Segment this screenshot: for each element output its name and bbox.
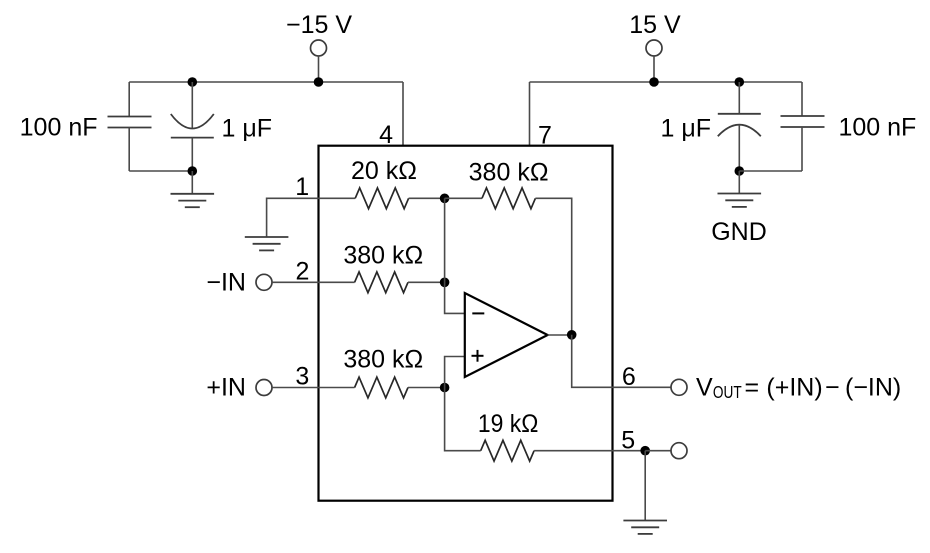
wire -15V rail <box>129 81 403 83</box>
wire pin 2 <box>272 281 354 283</box>
wire node C to non-inverting input <box>445 357 465 388</box>
svg-text:6: 6 <box>622 363 636 391</box>
capacitor 100 nF (right) <box>781 82 825 171</box>
resistor 380 kOhm (feedback) <box>482 188 535 209</box>
svg-text:380 kΩ: 380 kΩ <box>343 345 423 373</box>
junction dot node A <box>440 194 450 204</box>
terminal circle pin 6 <box>671 379 687 395</box>
junction dot node C <box>440 383 450 393</box>
junction dot rail/1uF <box>188 77 198 87</box>
ground (pin 1) <box>245 237 289 250</box>
wire node C down to 19k <box>445 388 481 451</box>
svg-text:15 V: 15 V <box>629 11 681 39</box>
wire 20k to node A <box>409 197 445 199</box>
junction dot rail/stem (right) <box>649 77 659 87</box>
svg-text:380 kΩ: 380 kΩ <box>343 242 423 270</box>
svg-text:100 nF: 100 nF <box>20 114 98 142</box>
svg-text:−IN: −IN <box>206 269 246 297</box>
svg-text:380 kΩ: 380 kΩ <box>469 159 549 187</box>
svg-text:GND: GND <box>711 218 767 246</box>
op-amp minus sign <box>472 312 484 314</box>
wire stem from -15V terminal <box>318 56 320 82</box>
svg-text:−: − <box>825 374 840 402</box>
resistor 380 kOhm (pin 3) <box>355 377 408 398</box>
wire 19k to pin 5 node <box>534 450 645 452</box>
junction dot pin 5 <box>640 446 650 456</box>
wire pin 1 <box>267 198 356 237</box>
terminal circle pin 3 <box>256 380 272 396</box>
wire pin 3 <box>272 387 354 389</box>
junction dot caps/ground (left) <box>188 166 198 176</box>
svg-text:=: = <box>745 374 760 402</box>
wire ground stem (left) <box>191 171 193 194</box>
junction dot rail/stem <box>314 77 324 87</box>
capacitor 1 uF polarized (right) <box>718 82 761 171</box>
wire pin7 drop <box>529 82 531 146</box>
wire 380k to node C <box>408 387 445 389</box>
wire output node to pin 6 terminal <box>572 335 671 388</box>
svg-text:3: 3 <box>295 363 309 391</box>
svg-text:−15 V: −15 V <box>286 11 352 39</box>
svg-text:(−IN): (−IN) <box>845 374 901 402</box>
ground (pin 5) <box>623 521 667 534</box>
label VOUT equation <box>696 374 901 403</box>
junction dot rail/1uF (right) <box>735 77 745 87</box>
wire ground stem (pin 5) <box>644 451 646 521</box>
resistor 20 kOhm <box>355 188 408 209</box>
svg-text:V: V <box>696 374 713 402</box>
terminal circle -15V <box>311 40 327 56</box>
resistor 19 kOhm <box>481 440 534 461</box>
capacitor 100 nF (left) <box>108 82 152 171</box>
svg-text:(+IN): (+IN) <box>766 374 822 402</box>
wire pin 5 to terminal <box>645 450 671 452</box>
ground (right supply) <box>718 194 762 207</box>
svg-text:19 kΩ: 19 kΩ <box>478 410 539 438</box>
svg-text:5: 5 <box>621 426 635 454</box>
IC package box <box>319 146 613 501</box>
svg-text:20 kΩ: 20 kΩ <box>351 157 417 185</box>
svg-text:1 μF: 1 μF <box>222 115 273 143</box>
svg-text:100 nF: 100 nF <box>839 114 917 142</box>
wire ground stem (right) <box>738 171 740 194</box>
wire stem from 15V terminal <box>653 56 655 82</box>
junction dot 1uF/ground (right) <box>735 166 745 176</box>
svg-text:2: 2 <box>296 257 310 285</box>
terminal circle 15V <box>646 40 662 56</box>
op-amp plus sign <box>472 350 484 362</box>
wire node A to 380k <box>445 197 482 199</box>
svg-text:OUT: OUT <box>713 384 742 403</box>
wire feedback to output node <box>535 198 571 334</box>
svg-text:1: 1 <box>295 173 309 201</box>
wire pin4 drop <box>402 82 404 146</box>
terminal circle pin 2 <box>256 274 272 290</box>
wire bottom joining 100nF to 1uF (left) <box>129 170 192 172</box>
resistor 380 kOhm (pin 2) <box>355 272 408 293</box>
wire op-amp output <box>548 334 572 336</box>
capacitor 1 uF polarized (left) <box>171 82 214 171</box>
junction dot output node <box>567 330 577 340</box>
wire bottom joining 1uF to 100nF (right) <box>739 170 802 172</box>
svg-text:+IN: +IN <box>206 374 246 402</box>
wire node A to inverting input <box>445 198 465 313</box>
wire 380k to node B <box>408 281 445 283</box>
ground (left supply) <box>171 194 215 207</box>
terminal circle pin 5 <box>671 443 687 459</box>
op-amp U1 <box>465 293 548 377</box>
wire 15V rail <box>530 81 802 83</box>
junction dot node B <box>440 278 450 288</box>
svg-text:1 μF: 1 μF <box>660 115 711 143</box>
